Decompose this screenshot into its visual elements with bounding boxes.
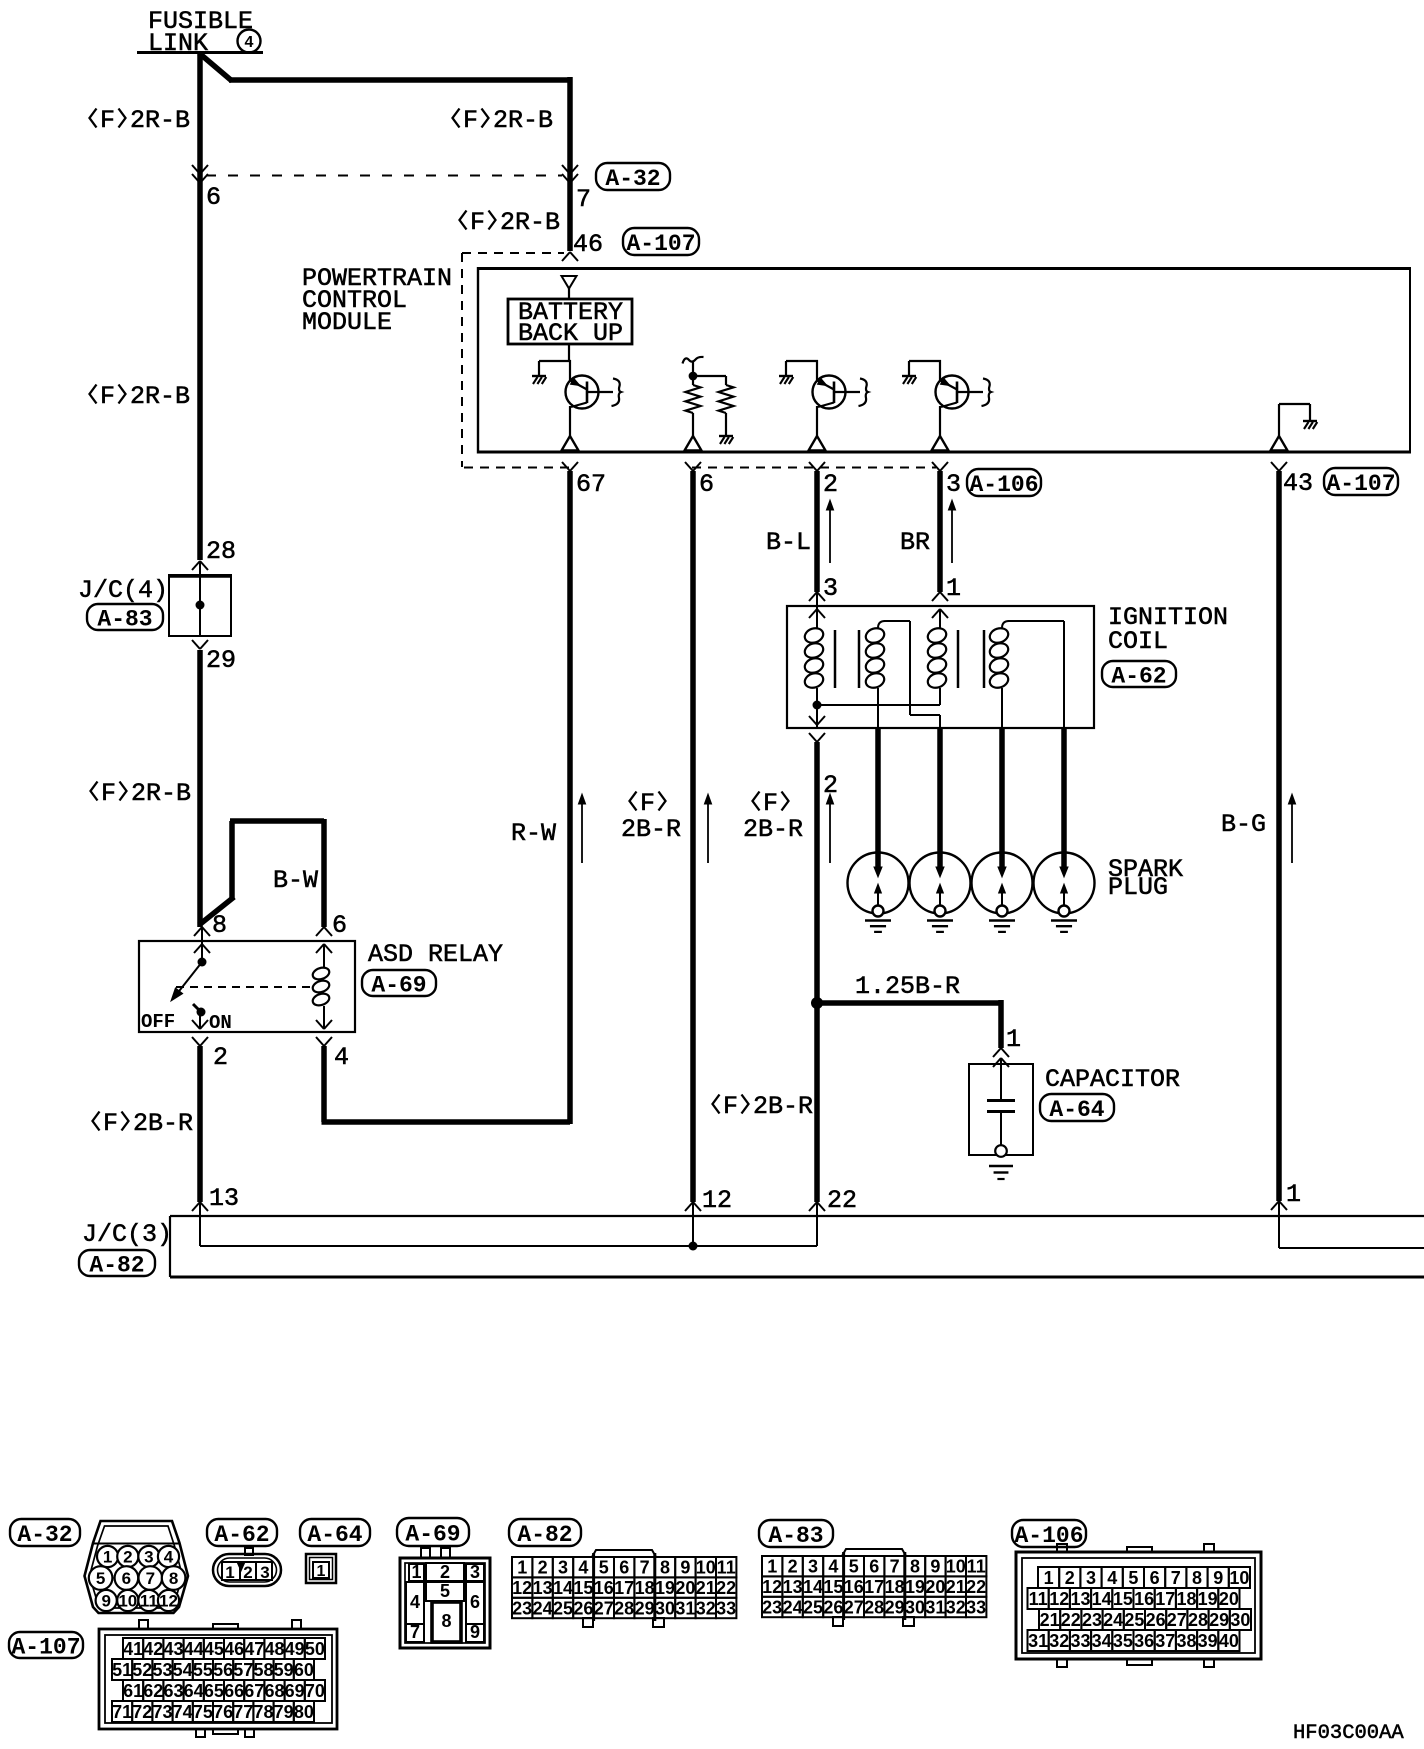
secondary winding 1 <box>864 626 886 645</box>
svg-text:35: 35 <box>1113 1631 1133 1651</box>
svg-text:33: 33 <box>716 1598 736 1618</box>
connector label A-64 mid <box>1040 1094 1114 1121</box>
svg-text:2R-B: 2R-B <box>130 106 190 135</box>
ASD relay box <box>139 941 355 1032</box>
PCM dashed boundary bottom seg2 <box>692 467 936 469</box>
svg-text:21: 21 <box>696 1578 716 1598</box>
svg-text:8: 8 <box>212 911 227 940</box>
svg-text:16: 16 <box>594 1578 614 1598</box>
wire fusible link down (F)2R-B <box>197 52 203 560</box>
svg-text:ASD RELAY: ASD RELAY <box>368 940 503 969</box>
arrow 2B-R col2 <box>829 798 831 863</box>
svg-text:A-83: A-83 <box>97 606 152 632</box>
wire (F)2R-B to ASD relay <box>197 650 203 927</box>
svg-text:18: 18 <box>1176 1589 1196 1609</box>
svg-text:13: 13 <box>783 1577 803 1597</box>
connector label A-83 bottom <box>759 1520 833 1547</box>
svg-text:37: 37 <box>1155 1631 1175 1651</box>
svg-text:BR: BR <box>900 528 930 557</box>
arrow R-W up <box>581 798 583 863</box>
svg-text:19: 19 <box>905 1577 925 1597</box>
svg-text:2B-R: 2B-R <box>753 1092 813 1121</box>
svg-text:16: 16 <box>1134 1589 1154 1609</box>
svg-text:6: 6 <box>470 1592 480 1612</box>
pin 3 triangle <box>932 436 949 451</box>
arrow 2B-R col1 <box>707 798 709 863</box>
svg-text:2: 2 <box>823 470 838 499</box>
connector A-83 drawing <box>842 1549 906 1556</box>
svg-text:22: 22 <box>716 1578 736 1598</box>
pin 13 chevron <box>192 1202 200 1211</box>
svg-text:70: 70 <box>305 1681 325 1701</box>
svg-text:22: 22 <box>966 1577 986 1597</box>
svg-text:36: 36 <box>1134 1631 1154 1651</box>
svg-text:3: 3 <box>1086 1568 1096 1588</box>
svg-text:4: 4 <box>334 1043 349 1072</box>
pin 12 chevron <box>685 1202 693 1211</box>
capacitor ground <box>989 1165 1013 1168</box>
capacitor element <box>1000 1058 1002 1099</box>
svg-text:61: 61 <box>123 1681 143 1701</box>
svg-text:29: 29 <box>885 1597 905 1617</box>
svg-text:4: 4 <box>245 34 254 51</box>
svg-text:F: F <box>100 382 115 411</box>
connector label A-107 bottom <box>9 1632 83 1658</box>
svg-text:13: 13 <box>533 1578 553 1598</box>
svg-text:9: 9 <box>680 1558 690 1578</box>
svg-text:3: 3 <box>260 1563 269 1582</box>
svg-text:78: 78 <box>253 1702 273 1722</box>
svg-text:74: 74 <box>173 1702 193 1722</box>
connector label A-82 bottom <box>509 1519 581 1546</box>
svg-text:12: 12 <box>1049 1589 1069 1609</box>
svg-text:15: 15 <box>1113 1589 1133 1609</box>
svg-text:2: 2 <box>1065 1568 1075 1588</box>
svg-text:32: 32 <box>1049 1631 1069 1651</box>
label <F>2B-R left bottom <box>93 1112 100 1131</box>
svg-text:3: 3 <box>808 1557 818 1577</box>
svg-text:23: 23 <box>512 1598 532 1618</box>
svg-text:2R-B: 2R-B <box>493 106 553 135</box>
connector A-64 drawing <box>306 1554 336 1583</box>
wire B-L pcm pin2 down to coil 3 <box>814 471 820 592</box>
svg-text:58: 58 <box>253 1660 273 1680</box>
svg-text:79: 79 <box>274 1702 294 1722</box>
svg-text:2B-R: 2B-R <box>743 815 803 844</box>
svg-text:6: 6 <box>122 1569 131 1588</box>
svg-text:1.25B-R: 1.25B-R <box>855 972 960 1001</box>
wire battery to transistor U1 <box>568 344 570 362</box>
label <F> 2B-R col2 <box>753 792 760 811</box>
svg-text:40: 40 <box>1219 1631 1239 1651</box>
dashed harness line A-32 <box>206 175 562 177</box>
pin 29 chevron <box>192 640 200 649</box>
svg-text:32: 32 <box>946 1597 966 1617</box>
svg-text:22: 22 <box>827 1186 857 1215</box>
svg-text:F: F <box>763 789 778 818</box>
svg-text:21: 21 <box>1040 1610 1060 1630</box>
svg-text:5: 5 <box>599 1558 609 1578</box>
svg-text:66: 66 <box>224 1681 244 1701</box>
wire (F)2B-R relay pin2 down <box>197 1046 203 1202</box>
svg-text:J/C(3): J/C(3) <box>82 1220 172 1249</box>
svg-text:39: 39 <box>1198 1631 1218 1651</box>
coil pin 1 chevrons <box>932 592 940 601</box>
svg-text:8: 8 <box>660 1558 670 1578</box>
svg-text:47: 47 <box>244 1639 264 1659</box>
PCM internal ground pin 43 <box>1278 404 1280 437</box>
pin 8 chevrons <box>194 927 202 936</box>
wire B-W branch diagonal <box>199 897 234 925</box>
svg-text:38: 38 <box>1176 1631 1196 1651</box>
svg-text:5: 5 <box>96 1569 105 1588</box>
connector A-106 drawing <box>1057 1544 1067 1552</box>
spark plug wires <box>875 728 881 868</box>
svg-text:20: 20 <box>1219 1589 1239 1609</box>
connector label A-106 top <box>967 469 1041 496</box>
svg-text:8: 8 <box>910 1557 920 1577</box>
battery back up box <box>508 299 632 344</box>
svg-text:4: 4 <box>164 1548 174 1567</box>
svg-text:6: 6 <box>699 470 714 499</box>
svg-text:A-82: A-82 <box>89 1252 144 1278</box>
svg-text:30: 30 <box>1230 1610 1250 1630</box>
svg-text:69: 69 <box>285 1681 305 1701</box>
svg-text:15: 15 <box>823 1577 843 1597</box>
svg-text:2: 2 <box>243 1563 252 1582</box>
svg-text:5: 5 <box>1128 1568 1138 1588</box>
svg-text:25: 25 <box>553 1598 573 1618</box>
svg-text:46: 46 <box>573 230 603 259</box>
connector label A-107 right <box>1324 468 1398 495</box>
junction connector J/C(4) box <box>169 575 231 636</box>
wire (F)2B-R pcm pin6 down to 12 <box>690 471 696 1202</box>
svg-text:41: 41 <box>123 1639 143 1659</box>
svg-text:45: 45 <box>204 1639 224 1659</box>
svg-text:2: 2 <box>788 1557 798 1577</box>
connector label A-69 mid <box>362 970 436 996</box>
PCM dashed boundary top <box>462 252 564 254</box>
svg-text:25: 25 <box>1124 1610 1144 1630</box>
svg-text:12: 12 <box>762 1577 782 1597</box>
jc3 bus right <box>1278 1201 1280 1248</box>
svg-text:1: 1 <box>946 574 961 603</box>
pin 2 relay chevrons <box>192 1020 200 1029</box>
svg-text:PLUG: PLUG <box>1108 873 1168 902</box>
connector label A-69 bottom <box>397 1518 469 1546</box>
primary winding 2 <box>939 609 941 628</box>
spark plug 3 <box>972 853 1033 914</box>
connector A-107 drawing <box>139 1620 148 1629</box>
svg-text:18: 18 <box>885 1577 905 1597</box>
wire BR pcm pin3 down to coil 1 <box>937 471 943 592</box>
svg-text:19: 19 <box>655 1578 675 1598</box>
svg-text:12: 12 <box>159 1592 178 1611</box>
svg-text:7: 7 <box>410 1622 420 1642</box>
svg-text:71: 71 <box>112 1702 132 1722</box>
svg-text:3: 3 <box>470 1562 480 1582</box>
wire top horizontal (F)2R-B <box>229 77 570 83</box>
svg-text:13: 13 <box>1070 1589 1090 1609</box>
svg-text:F: F <box>463 106 478 135</box>
svg-text:MODULE: MODULE <box>302 308 392 337</box>
chevron pin 46 <box>562 252 570 261</box>
svg-text:1: 1 <box>1044 1568 1054 1588</box>
svg-text:50: 50 <box>305 1639 325 1659</box>
wire 1.25B-R horizontal <box>817 1000 1001 1006</box>
svg-text:F: F <box>103 1109 118 1138</box>
svg-text:6: 6 <box>332 911 347 940</box>
svg-text:26: 26 <box>1146 1610 1166 1630</box>
svg-text:9: 9 <box>930 1557 940 1577</box>
wire branch diagonal to top horizontal <box>199 53 232 81</box>
pin 67 chevron <box>562 462 570 471</box>
wire R-W relay pin4 to PCM 67 <box>321 1046 327 1122</box>
svg-text:7: 7 <box>1171 1568 1181 1588</box>
svg-text:6: 6 <box>619 1558 629 1578</box>
wire B-W horizontal <box>230 818 324 824</box>
svg-text:1: 1 <box>103 1548 112 1567</box>
pin 67 triangle <box>562 436 579 451</box>
svg-text:A-107: A-107 <box>626 231 695 257</box>
transistor pin 67 driver <box>539 360 571 362</box>
pin 43 triangle <box>1271 436 1288 451</box>
core bars pair 2 <box>957 630 960 688</box>
PCM dashed boundary left <box>461 253 463 467</box>
secondary winding 2 <box>988 626 1010 645</box>
svg-text:28: 28 <box>1188 1610 1208 1630</box>
svg-text:63: 63 <box>163 1681 183 1701</box>
core bars pair 1 <box>834 630 837 688</box>
svg-text:2: 2 <box>213 1043 228 1072</box>
transistor pin 3 driver <box>909 360 941 362</box>
pin 43 chevron <box>1271 462 1279 471</box>
wire right vertical to A-32 pin 7 <box>567 77 573 251</box>
label <F>2R-B left lower <box>91 782 98 801</box>
svg-text:77: 77 <box>233 1702 253 1722</box>
svg-text:1: 1 <box>1286 1180 1301 1209</box>
label <F>2R-B left top <box>90 109 97 128</box>
svg-text:57: 57 <box>233 1660 253 1680</box>
svg-text:9: 9 <box>470 1622 480 1642</box>
wire (F)2B-R coil pin2 down <box>814 742 820 1202</box>
svg-text:A-64: A-64 <box>1049 1097 1104 1123</box>
wire B-W vertical to relay pin 6 <box>321 819 327 927</box>
svg-text:2B-R: 2B-R <box>621 815 681 844</box>
svg-text:A-107: A-107 <box>1326 471 1395 497</box>
svg-text:A-62: A-62 <box>214 1522 269 1548</box>
svg-text:A-69: A-69 <box>405 1521 460 1547</box>
svg-text:6: 6 <box>869 1557 879 1577</box>
svg-text:3: 3 <box>823 574 838 603</box>
svg-text:28: 28 <box>864 1597 884 1617</box>
svg-text:3: 3 <box>946 470 961 499</box>
coil pin 2 exit chevrons <box>816 705 818 729</box>
pin 3 chevron <box>932 462 940 471</box>
svg-text:29: 29 <box>635 1598 655 1618</box>
svg-text:2: 2 <box>123 1548 132 1567</box>
junction pin 6 chevrons <box>192 165 200 174</box>
svg-text:14: 14 <box>803 1577 823 1597</box>
svg-text:18: 18 <box>635 1578 655 1598</box>
svg-text:33: 33 <box>966 1597 986 1617</box>
svg-text:5: 5 <box>849 1557 859 1577</box>
svg-text:64: 64 <box>184 1681 204 1701</box>
svg-text:25: 25 <box>803 1597 823 1617</box>
svg-text:27: 27 <box>844 1597 864 1617</box>
svg-text:2B-R: 2B-R <box>133 1109 193 1138</box>
svg-text:1: 1 <box>317 1563 326 1580</box>
svg-text:19: 19 <box>1198 1589 1218 1609</box>
svg-text:11: 11 <box>140 1592 158 1611</box>
svg-text:17: 17 <box>614 1578 634 1598</box>
svg-text:10: 10 <box>946 1557 966 1577</box>
svg-text:4: 4 <box>410 1592 420 1612</box>
svg-text:9: 9 <box>101 1592 110 1611</box>
svg-text:54: 54 <box>173 1660 193 1680</box>
svg-text:B-L: B-L <box>766 528 811 557</box>
svg-text:1: 1 <box>411 1562 421 1582</box>
svg-text:A-69: A-69 <box>371 972 426 998</box>
svg-text:1: 1 <box>1006 1025 1021 1054</box>
capacitor pin 1 chevrons <box>993 1048 1001 1057</box>
svg-text:33: 33 <box>1070 1631 1090 1651</box>
svg-text:13: 13 <box>209 1184 239 1213</box>
pin 1 chevron jc3 <box>1271 1201 1279 1210</box>
svg-text:8: 8 <box>169 1569 178 1588</box>
svg-text:20: 20 <box>925 1577 945 1597</box>
connector A-82 drawing <box>592 1550 656 1557</box>
svg-text:A-32: A-32 <box>605 166 660 192</box>
svg-text:5: 5 <box>440 1581 450 1601</box>
svg-text:10: 10 <box>1229 1568 1249 1588</box>
svg-text:A-64: A-64 <box>307 1522 362 1548</box>
svg-text:2R-B: 2R-B <box>500 208 560 237</box>
svg-text:1: 1 <box>225 1563 234 1582</box>
label <F>2B-R mid <box>713 1095 720 1114</box>
svg-text:56: 56 <box>213 1660 233 1680</box>
connector label A-83 mid <box>87 604 163 630</box>
svg-text:28: 28 <box>614 1598 634 1618</box>
connector label A-107 top <box>623 228 699 255</box>
connector label A-64 bottom <box>300 1519 370 1546</box>
svg-text:A-82: A-82 <box>517 1522 572 1548</box>
spark plug 4 <box>1034 853 1095 914</box>
svg-text:2R-B: 2R-B <box>131 779 191 808</box>
svg-text:24: 24 <box>533 1598 553 1618</box>
junction pin 7 chevrons <box>562 165 570 174</box>
svg-text:J/C(4): J/C(4) <box>78 576 168 605</box>
connector label A-32 bottom <box>10 1519 80 1546</box>
battery back up input triangle <box>562 276 577 289</box>
svg-text:24: 24 <box>1103 1610 1123 1630</box>
svg-text:44: 44 <box>184 1639 204 1659</box>
junction connector J/C(3) box <box>170 1215 1424 1217</box>
connector A-32 drawing <box>85 1521 189 1613</box>
PCM box <box>478 267 1410 270</box>
svg-text:24: 24 <box>783 1597 803 1617</box>
svg-text:4: 4 <box>1107 1568 1117 1588</box>
svg-text:COIL: COIL <box>1108 627 1168 656</box>
svg-text:67: 67 <box>576 470 606 499</box>
svg-text:16: 16 <box>844 1577 864 1597</box>
svg-text:2: 2 <box>538 1558 548 1578</box>
relay coil <box>323 944 325 967</box>
label <F>2R-B pin7-46 <box>460 211 467 230</box>
svg-text:4: 4 <box>578 1558 588 1578</box>
svg-text:31: 31 <box>1028 1631 1048 1651</box>
svg-text:7: 7 <box>890 1557 900 1577</box>
connector label A-82 mid <box>79 1250 155 1276</box>
svg-text:53: 53 <box>152 1660 172 1680</box>
svg-text:59: 59 <box>274 1660 294 1680</box>
svg-text:15: 15 <box>573 1578 593 1598</box>
svg-text:22: 22 <box>1061 1610 1081 1630</box>
svg-text:CAPACITOR: CAPACITOR <box>1045 1065 1180 1094</box>
svg-text:30: 30 <box>655 1598 675 1618</box>
coil common junction <box>813 701 822 710</box>
svg-text:32: 32 <box>696 1598 716 1618</box>
pin 4 relay chevrons <box>316 1020 324 1029</box>
svg-text:31: 31 <box>675 1598 695 1618</box>
svg-text:62: 62 <box>143 1681 163 1701</box>
connector label A-62 mid <box>1102 661 1176 687</box>
wire B-W vertical left <box>229 821 235 899</box>
svg-text:65: 65 <box>204 1681 224 1701</box>
svg-text:76: 76 <box>213 1702 233 1722</box>
svg-text:F: F <box>640 789 655 818</box>
svg-text:BACK UP: BACK UP <box>518 319 623 348</box>
svg-text:73: 73 <box>152 1702 172 1722</box>
svg-text:28: 28 <box>206 537 236 566</box>
arrow BR up <box>951 504 953 563</box>
arrow B-L up <box>829 504 831 563</box>
coil pin 3 chevrons <box>809 592 817 601</box>
wire B-G pcm pin43 down <box>1276 471 1282 1201</box>
connector label A-62 bottom <box>207 1519 277 1546</box>
svg-text:F: F <box>723 1092 738 1121</box>
svg-text:43: 43 <box>1283 469 1313 498</box>
arrow B-G up <box>1291 798 1293 863</box>
svg-text:60: 60 <box>294 1660 314 1680</box>
svg-text:42: 42 <box>143 1639 163 1659</box>
svg-text:2R-B: 2R-B <box>130 382 190 411</box>
pin 2 triangle <box>809 436 826 451</box>
svg-text:43: 43 <box>163 1639 183 1659</box>
svg-text:A-107: A-107 <box>11 1634 80 1660</box>
relay ON contact <box>193 1004 201 1012</box>
svg-text:11: 11 <box>1029 1589 1048 1609</box>
svg-text:11: 11 <box>717 1558 736 1578</box>
svg-text:A-62: A-62 <box>1111 663 1166 689</box>
svg-text:68: 68 <box>264 1681 284 1701</box>
svg-text:9: 9 <box>1213 1568 1223 1588</box>
svg-text:14: 14 <box>1092 1589 1112 1609</box>
PCM dashed boundary bottom seg1 <box>464 467 571 469</box>
capacitor C1 box <box>969 1064 1033 1155</box>
svg-text:17: 17 <box>864 1577 884 1597</box>
svg-text:8: 8 <box>1192 1568 1202 1588</box>
connector label A-106 bottom <box>1012 1520 1086 1547</box>
label <F>2R-B right top <box>453 109 460 128</box>
pin 2 chevron <box>809 462 817 471</box>
svg-text:26: 26 <box>573 1598 593 1618</box>
pin 6 triangle <box>685 436 702 451</box>
svg-text:OFF: OFF <box>141 1011 175 1033</box>
svg-text:51: 51 <box>112 1660 132 1680</box>
transistor pin 2 driver <box>786 360 818 362</box>
wire 1.25B-R to capacitor <box>998 1000 1004 1048</box>
